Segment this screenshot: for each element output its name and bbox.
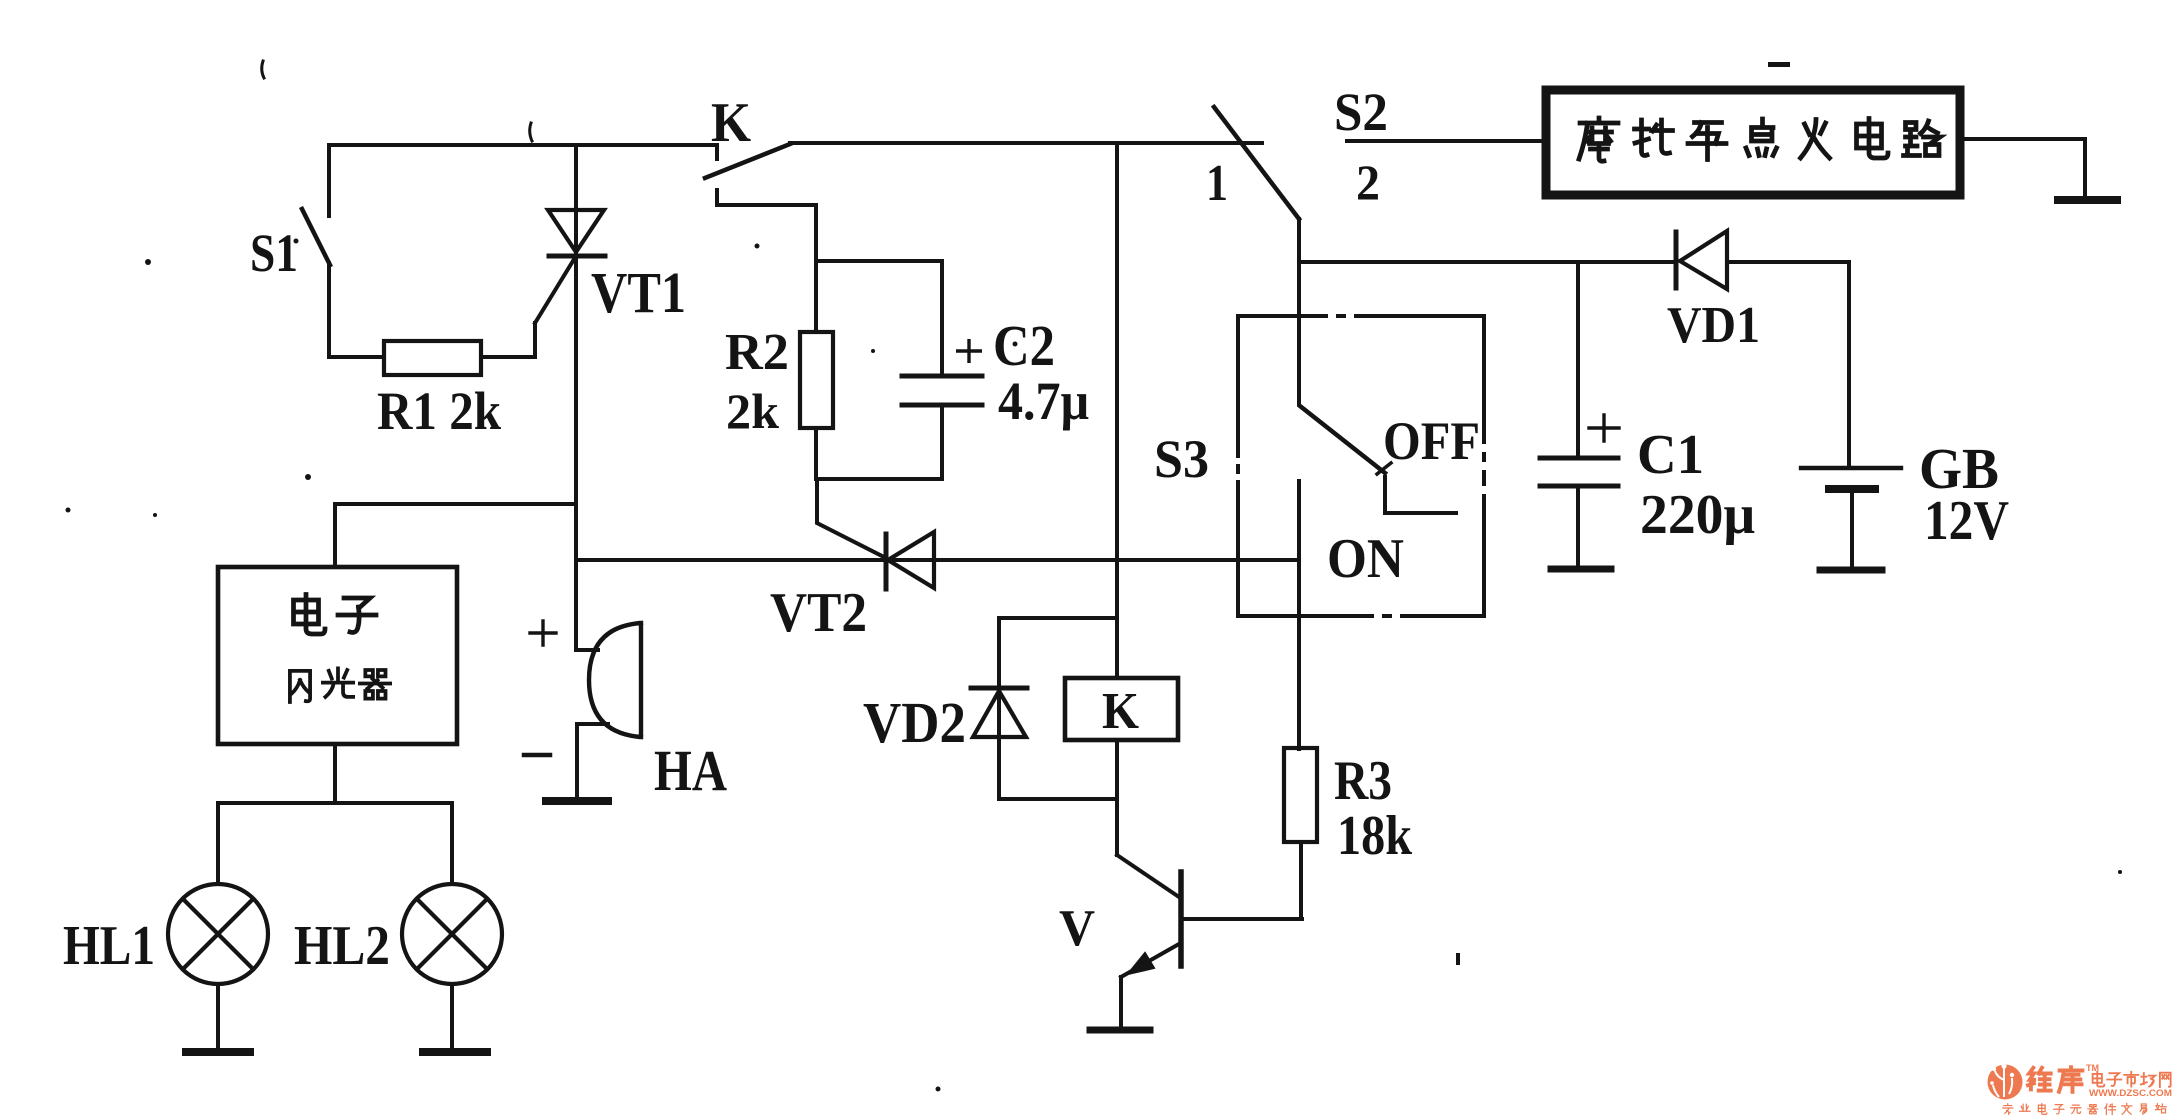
switch S3 blade	[1300, 406, 1385, 473]
terminal bar C1	[1551, 566, 1611, 573]
switch S1 blade	[302, 209, 330, 265]
battery GB positive plate	[1801, 466, 1901, 470]
svg-text:R2: R2	[725, 324, 789, 381]
thyristor VT1 cathode bar	[549, 254, 605, 259]
svg-text:4.7μ: 4.7μ	[998, 371, 1089, 431]
svg-text:HA: HA	[654, 738, 727, 803]
speck marks	[262, 61, 532, 141]
svg-text:C1: C1	[1637, 424, 1704, 486]
transistor V collector lead	[1117, 855, 1179, 897]
wire flasher bottom lead	[333, 744, 337, 803]
text 闪光器 (flasher box line 2)	[290, 668, 390, 702]
svg-text:18k: 18k	[1337, 805, 1413, 867]
transistor V base bar	[1178, 872, 1184, 966]
wire R2 C2 bottom junction	[816, 477, 942, 481]
capacitor C1 plates	[1540, 458, 1618, 486]
thyristor VT1 triangle	[548, 210, 604, 252]
battery GB negative plate	[1829, 485, 1875, 493]
capacitor C2 top lead	[940, 261, 944, 373]
wire top-left horizontal	[329, 143, 716, 147]
wire S1 to R1	[329, 355, 384, 359]
svg-text:R1 2k: R1 2k	[377, 381, 501, 441]
wire S2 pole vertical	[1297, 219, 1301, 404]
watermark logo circle	[1988, 1063, 2023, 1099]
relay coil K box	[1065, 678, 1178, 740]
svg-text:V: V	[1059, 900, 1095, 957]
resistor R3	[1284, 748, 1317, 842]
ground HL2	[423, 1048, 487, 1056]
wire R2 C2 top junction	[816, 259, 942, 263]
switch K upper contact tick	[715, 145, 719, 159]
diode VD1 triangle	[1680, 231, 1727, 289]
switch S3 enclosure (dash-dot)	[1238, 316, 1484, 616]
wire R3 bottom lead	[1299, 842, 1303, 919]
svg-text:C2: C2	[993, 313, 1055, 378]
switch S2 blade	[1214, 107, 1299, 219]
wire ON horizontal	[576, 558, 1299, 562]
svg-text:VT1: VT1	[591, 260, 686, 325]
wire VT1 vertical (anode-cathode line)	[574, 145, 578, 650]
ground HA	[546, 797, 608, 805]
watermark 专业电子元器件交易网站	[2003, 1104, 2166, 1115]
thyristor VT2 triangle	[888, 532, 934, 588]
svg-text:K: K	[1102, 683, 1140, 740]
svg-text:R3: R3	[1334, 750, 1392, 812]
wire HL2 top lead	[450, 803, 454, 884]
plus sign HA	[530, 621, 556, 645]
wire S3 ON vertical	[1297, 481, 1301, 749]
wire V emitter vertical	[1119, 977, 1123, 1026]
capacitor C2 bottom lead	[940, 408, 944, 479]
wire flasher top lead	[333, 504, 337, 567]
diode VD2 cathode bar	[971, 686, 1027, 691]
ignition circuit box 摩托车点火电路	[1546, 90, 1960, 195]
watermark 电子市场网	[2093, 1072, 2171, 1087]
plus sign C1	[1589, 415, 1619, 441]
text 电子 (flasher box line 1)	[294, 595, 377, 635]
svg-text:HL2: HL2	[294, 915, 390, 977]
diode VD2 bottom wire	[999, 797, 1117, 801]
text 摩托车点火电路 (ignition box)	[1579, 118, 1940, 161]
wire relay K to transistor	[1115, 740, 1119, 855]
svg-text:2k: 2k	[726, 383, 779, 439]
svg-text:OFF: OFF	[1383, 411, 1480, 471]
transistor V emitter arrow	[1128, 953, 1154, 974]
wire HL1 bottom lead	[216, 984, 220, 1048]
ground HL1	[186, 1048, 250, 1056]
diode VD2 triangle	[973, 691, 1026, 737]
svg-text:S3: S3	[1154, 429, 1209, 489]
switch S3 blade tick	[1377, 463, 1391, 474]
wire R2 top lead	[814, 261, 818, 332]
battery GB stem	[1850, 493, 1854, 566]
lamp HL1	[168, 884, 268, 984]
buzzer HA	[589, 623, 641, 737]
ground top-right	[2058, 196, 2117, 204]
wire HA top lead	[576, 648, 598, 652]
minus sign HA	[524, 753, 550, 758]
svg-text:12V: 12V	[1924, 490, 2009, 552]
resistor R2	[800, 332, 833, 428]
diode VD1 cathode bar	[1674, 232, 1679, 288]
svg-text:2: 2	[1356, 154, 1380, 210]
wire top horizontal K to S2	[790, 141, 1262, 145]
wire S1 lower vertical	[327, 263, 331, 357]
thyristor VT2 cathode bar	[884, 534, 889, 589]
switch K blade	[705, 144, 790, 178]
svg-text:HL1: HL1	[63, 915, 155, 977]
lamp HL2	[402, 884, 502, 984]
wire K to R2 branch	[717, 205, 816, 261]
wire lamp bus horizontal	[218, 801, 452, 805]
watermark 维库	[2028, 1067, 2082, 1092]
diode VD2 lead vertical	[997, 618, 1001, 799]
node main vertical bus	[1115, 143, 1119, 678]
transistor V emitter lead	[1121, 944, 1179, 977]
wire flasher top horizontal	[335, 502, 576, 506]
wire S1 upper vertical	[327, 145, 331, 216]
switch K lower contact tick	[715, 190, 719, 205]
wire VD1 to battery	[1727, 262, 1849, 466]
svg-text:ON: ON	[1327, 528, 1404, 590]
wire HA bottom lead	[577, 724, 608, 797]
capacitor C1 lead bottom	[1576, 489, 1580, 566]
wire HL1 top lead	[216, 803, 220, 884]
wire S3 OFF contact	[1385, 477, 1456, 513]
wire HL2 bottom lead	[450, 984, 454, 1048]
svg-text:S2: S2	[1334, 82, 1388, 142]
diode VD2 top wire	[999, 616, 1117, 620]
svg-text:VD2: VD2	[863, 690, 966, 755]
capacitor C2 plates	[902, 376, 982, 405]
wire R2 bottom lead	[814, 428, 818, 479]
thyristor VT1 gate lead	[535, 256, 576, 323]
wire VD1 horizontal	[1299, 260, 1674, 264]
svg-text:S1: S1	[250, 223, 298, 283]
svg-text:K: K	[711, 92, 751, 154]
wire ignition box right	[1960, 139, 2085, 196]
thyristor VT2 gate lead	[817, 479, 886, 558]
ground V	[1090, 1027, 1150, 1034]
wire R1 to VT1 gate	[481, 323, 535, 357]
terminal bar GB	[1820, 567, 1882, 574]
transistor V base wire	[1184, 917, 1302, 921]
plus sign C2	[956, 339, 982, 363]
svg-text:WWW.DZSC.COM: WWW.DZSC.COM	[2089, 1088, 2172, 1099]
svg-text:VT2: VT2	[770, 582, 867, 644]
flasher box 电子闪光器	[218, 567, 457, 744]
svg-text:220μ: 220μ	[1640, 484, 1755, 546]
resistor R1	[384, 341, 481, 375]
svg-text:VD1: VD1	[1667, 297, 1760, 354]
capacitor C1 lead top	[1576, 262, 1580, 455]
svg-text:1: 1	[1206, 155, 1228, 212]
wire S2 right segment	[1347, 139, 1546, 143]
